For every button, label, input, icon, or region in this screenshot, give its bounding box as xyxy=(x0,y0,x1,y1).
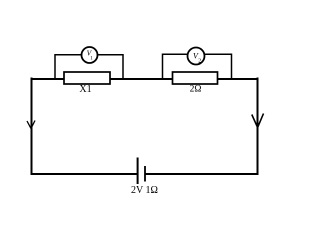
current arrow left branch xyxy=(27,121,35,129)
battery cell short plate xyxy=(144,166,146,182)
battery cell long plate xyxy=(137,158,139,185)
svg-text:2Ω: 2Ω xyxy=(190,85,202,95)
current arrow right branch xyxy=(252,114,264,128)
wire V1 branch top xyxy=(55,54,123,56)
wire left vertical conductor xyxy=(31,78,33,176)
voltmeter V2 xyxy=(188,48,205,65)
wire bottom right conductor xyxy=(146,173,259,175)
svg-text:1: 1 xyxy=(90,56,93,62)
wire right vertical conductor xyxy=(257,78,259,176)
svg-text:2V 1Ω: 2V 1Ω xyxy=(131,185,158,196)
wire V1 branch right vertical xyxy=(122,54,124,78)
wire V1 branch left vertical xyxy=(54,54,56,78)
wire V2 branch right vertical xyxy=(231,54,233,79)
wire main horizontal conductor xyxy=(31,78,259,80)
resistor 2 ohm xyxy=(173,72,218,95)
svg-text:2: 2 xyxy=(198,59,201,65)
resistor X1 xyxy=(64,72,110,95)
wire V2 branch top xyxy=(163,53,232,55)
voltmeter V1 xyxy=(82,47,98,63)
svg-text:X1: X1 xyxy=(79,84,91,95)
wire bottom left conductor xyxy=(31,173,138,175)
wire V2 branch left vertical xyxy=(162,54,164,79)
